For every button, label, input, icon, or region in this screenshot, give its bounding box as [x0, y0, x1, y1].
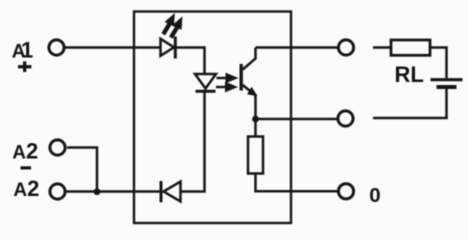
wire resistor to 0 terminal: [256, 174, 339, 192]
LED D1 (status): [161, 39, 175, 56]
wire RL to battery: [430, 48, 447, 79]
svg-text:A2: A2: [12, 139, 38, 164]
terminal 0 (bottom right): [338, 184, 353, 199]
terminal A2 lower: [50, 184, 65, 199]
terminal A2 upper: [50, 140, 65, 155]
label minus sign: [21, 166, 32, 169]
wire A2 upper to junction: [67, 148, 97, 192]
wire A2 lower to diode: [67, 190, 161, 193]
node E junction dot: [252, 116, 259, 123]
coupling light arrow 2: [216, 82, 238, 93]
resistor R1: [248, 137, 263, 174]
wire terminal to RL: [373, 46, 391, 49]
Q1 emitter: [243, 85, 256, 96]
junction dot A2 node: [94, 188, 101, 195]
svg-text:A2: A2: [13, 176, 39, 201]
Q1 emitter arrowhead: [247, 87, 258, 96]
svg-text:RL: RL: [395, 62, 424, 87]
optocoupler box U1: [134, 12, 291, 224]
terminal output 13 (top right): [338, 40, 353, 55]
battery BT1 negative plate: [437, 85, 457, 89]
optocoupler LED D2 (vertical): [195, 74, 216, 89]
wire photodiode down to bottom corner: [181, 92, 205, 192]
wire collector to terminal: [256, 46, 339, 49]
wire battery to mid terminal: [373, 89, 447, 118]
LED D1 emission arrow 1: [161, 13, 174, 35]
protection diode D3: [160, 181, 163, 202]
wire emitter down through node E: [254, 96, 257, 137]
Q1 collector: [243, 48, 256, 70]
battery BT1 positive plate: [431, 78, 463, 81]
terminal A1: [49, 40, 64, 55]
load resistor RL: [391, 40, 430, 55]
terminal output 14 (mid right): [338, 111, 353, 126]
label plus sign: [18, 61, 31, 72]
coupling light arrow 1: [217, 73, 239, 84]
svg-text:0: 0: [369, 184, 380, 207]
wire node E to mid terminal: [256, 118, 339, 121]
phototransistor Q1 base bar: [239, 64, 242, 91]
svg-text:1: 1: [21, 38, 33, 63]
LED D1 emission arrow 2: [169, 16, 182, 38]
wire LED to corner, down to photodiode: [177, 48, 205, 74]
wire A1 to LED: [66, 46, 161, 49]
